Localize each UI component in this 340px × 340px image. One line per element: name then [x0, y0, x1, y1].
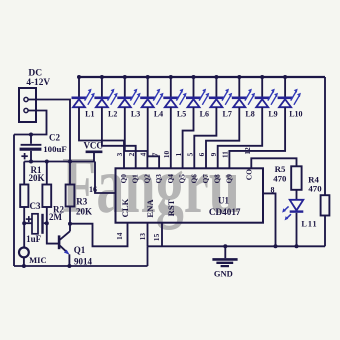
wire VCC to pin 16 — [95, 162, 116, 194]
wire ground rail — [148, 245, 326, 247]
label L1 — [85, 110, 94, 119]
wire pin 13 stub — [147, 223, 149, 247]
wire L6 to pin 1 — [183, 107, 194, 168]
wire ground riser — [147, 246, 149, 266]
svg-text:6: 6 — [197, 152, 206, 156]
svg-text:Q1: Q1 — [74, 245, 86, 255]
svg-text:L7: L7 — [223, 110, 232, 119]
label Q1 9014 — [74, 245, 93, 266]
label pin 16 — [89, 185, 97, 194]
wire pin 15 stub — [161, 223, 163, 247]
LED L8 — [232, 78, 255, 107]
svg-text:CLK: CLK — [120, 198, 130, 217]
label pin 13 — [138, 233, 147, 241]
label L9 — [268, 110, 277, 119]
svg-text:RST: RST — [166, 199, 176, 216]
svg-text:GND: GND — [214, 269, 233, 279]
wire L9 to pin 9 — [218, 107, 263, 168]
label R5 470 — [273, 164, 287, 184]
svg-text:L5: L5 — [177, 110, 186, 119]
label DC 4-12V — [26, 68, 50, 87]
labels Q0-Q9 outputs — [120, 174, 233, 184]
label MIC — [29, 255, 46, 265]
wire L10 to pin 11 — [229, 107, 285, 168]
wire L2 to pin 2 — [102, 107, 136, 168]
LED L3 — [117, 78, 140, 107]
svg-text:U1: U1 — [218, 195, 229, 205]
LED L6 — [186, 78, 209, 107]
wire L11 to ground — [295, 213, 299, 249]
LED L5 — [163, 78, 186, 107]
LED L11 — [282, 200, 303, 221]
transistor Q1 — [59, 222, 72, 268]
vcc symbol — [83, 141, 103, 162]
svg-text:Q2: Q2 — [143, 174, 151, 184]
wire C3-R2 node to Q1 base — [45, 221, 59, 243]
resistor R1 — [20, 162, 28, 224]
svg-text:CO: CO — [244, 169, 253, 180]
ground — [212, 244, 237, 278]
LED L7 — [209, 78, 232, 107]
label R3 20K — [76, 197, 92, 217]
svg-text:Q8: Q8 — [214, 174, 222, 184]
label ENA — [145, 199, 155, 218]
svg-text:4-12V: 4-12V — [26, 78, 50, 88]
svg-text:R3: R3 — [76, 197, 87, 207]
svg-text:20K: 20K — [76, 207, 92, 217]
wire L7 to pin 5 — [194, 107, 216, 168]
svg-text:8: 8 — [271, 186, 275, 195]
label pin 12 — [243, 147, 252, 155]
svg-text:Q3: Q3 — [155, 174, 163, 184]
svg-text:Q5: Q5 — [179, 174, 187, 184]
IC U1 CD4017 body — [116, 168, 264, 222]
wire pin 12 to R5 — [251, 158, 296, 168]
svg-text:Q0: Q0 — [120, 174, 128, 184]
svg-text:15: 15 — [152, 233, 161, 241]
svg-text:Q1: Q1 — [132, 174, 140, 184]
svg-text:Q9: Q9 — [225, 174, 233, 184]
LED L1 — [72, 78, 95, 107]
label R2 2M — [49, 205, 64, 223]
wire R5 to L11 — [296, 190, 298, 200]
label L5 — [177, 110, 186, 119]
svg-text:9: 9 — [209, 152, 218, 156]
resistor R3 — [66, 162, 75, 224]
svg-text:Q7: Q7 — [202, 174, 210, 184]
svg-text:L6: L6 — [200, 110, 209, 119]
svg-text:CD4017: CD4017 — [209, 207, 241, 217]
LED L4 — [140, 78, 163, 107]
svg-text:L3: L3 — [131, 110, 140, 119]
svg-text:10: 10 — [162, 151, 171, 159]
wire pin 8 to ground — [263, 193, 278, 248]
svg-text:ENA: ENA — [145, 199, 155, 218]
label pin 14 — [115, 232, 124, 240]
svg-text:MIC: MIC — [29, 255, 46, 265]
label CD4017 — [209, 207, 241, 217]
LED L2 — [94, 78, 117, 107]
svg-text:470: 470 — [273, 173, 287, 183]
label L7 — [223, 110, 232, 119]
connector J1 DC input — [19, 88, 36, 122]
label L3 — [131, 110, 140, 119]
wire L3 to pin 4 — [125, 107, 148, 168]
svg-text:L10: L10 — [289, 110, 302, 119]
label 1uF — [26, 234, 42, 244]
label CLK — [120, 198, 130, 217]
label L2 — [108, 110, 117, 119]
capacitor C2 — [20, 135, 42, 164]
svg-text:100uF: 100uF — [43, 144, 66, 154]
capacitor C3 — [24, 214, 47, 234]
label U1 — [218, 195, 229, 205]
svg-text:3: 3 — [115, 152, 124, 156]
LED L10 — [278, 78, 301, 107]
svg-text:R5: R5 — [275, 164, 286, 174]
svg-text:13: 13 — [138, 233, 147, 241]
wire DC+ to VCC rail — [28, 100, 70, 162]
svg-text:1: 1 — [174, 152, 183, 156]
wire VCC rail — [24, 160, 95, 164]
label pin 8 — [271, 186, 275, 195]
svg-text:11: 11 — [221, 151, 230, 158]
label RST — [166, 199, 176, 216]
wire DC- to ground rail — [14, 111, 47, 137]
svg-text:Q6: Q6 — [190, 174, 198, 184]
svg-text:9014: 9014 — [74, 256, 93, 266]
wire bottom ground rail left — [14, 265, 148, 267]
svg-text:1uF: 1uF — [26, 234, 42, 244]
svg-text:14: 14 — [115, 232, 124, 240]
svg-text:16: 16 — [89, 185, 97, 194]
wire L5 to pin 10 — [170, 107, 172, 168]
LED L9 — [255, 78, 278, 107]
svg-text:L11: L11 — [301, 219, 317, 228]
microphone MIC — [19, 223, 29, 268]
label pin 15 — [152, 233, 161, 241]
node A junction — [22, 221, 26, 225]
label CO — [244, 169, 253, 180]
label L6 — [200, 110, 209, 119]
wire L4 to pin 7 — [148, 107, 159, 168]
wire L8 to pin 6 — [206, 107, 239, 168]
label L11 — [301, 219, 317, 228]
wire R4 to ground — [324, 216, 326, 247]
resistor R4 — [321, 195, 330, 215]
wire left ground rail — [13, 135, 15, 267]
svg-text:Q4: Q4 — [167, 174, 175, 184]
svg-text:C3: C3 — [30, 201, 41, 211]
label C3 — [30, 201, 41, 211]
svg-text:L1: L1 — [85, 110, 94, 119]
svg-text:L4: L4 — [154, 110, 163, 119]
label L4 — [154, 110, 163, 119]
svg-text:4: 4 — [139, 152, 148, 156]
wire top rail to R4 — [324, 77, 326, 195]
svg-text:20K: 20K — [28, 173, 44, 183]
svg-text:2M: 2M — [49, 212, 63, 222]
resistor R5 — [291, 166, 301, 190]
svg-text:2: 2 — [127, 152, 136, 156]
wire collector to pin 14 CLK — [70, 223, 128, 247]
label C2 100uF — [43, 132, 66, 154]
svg-text:L9: L9 — [268, 110, 277, 119]
wire top LED rail — [77, 75, 325, 79]
watermark Fangru — [62, 142, 240, 230]
svg-text:470: 470 — [308, 183, 322, 193]
label R1 20K — [28, 165, 44, 183]
label L10 — [289, 110, 302, 119]
label R4 470 — [308, 174, 322, 193]
labels output pin numbers — [115, 151, 229, 159]
svg-text:L8: L8 — [245, 110, 254, 119]
wire L1 to pin 3 — [79, 107, 124, 168]
label L8 — [245, 110, 254, 119]
svg-text:C2: C2 — [49, 132, 60, 142]
resistor R2 — [42, 162, 51, 224]
svg-text:L2: L2 — [108, 110, 117, 119]
svg-text:VCC: VCC — [83, 141, 103, 151]
svg-text:5: 5 — [186, 152, 195, 156]
